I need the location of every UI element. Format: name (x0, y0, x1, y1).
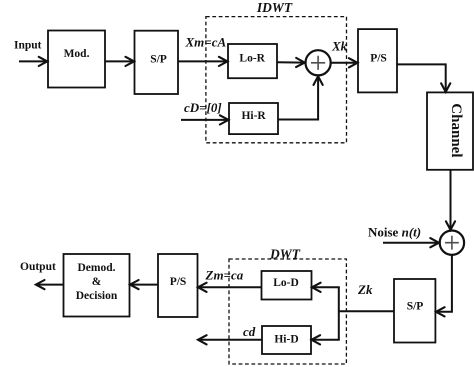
svg-text:&: & (92, 276, 102, 288)
svg-text:Xk: Xk (331, 39, 348, 54)
svg-text:Hi-D: Hi-D (274, 334, 298, 346)
svg-text:Demod.: Demod. (77, 262, 115, 274)
svg-text:cD=[0]: cD=[0] (184, 100, 222, 115)
svg-text:DWT: DWT (269, 247, 301, 262)
svg-text:P/S: P/S (170, 276, 187, 288)
svg-text:Lo-R: Lo-R (239, 53, 265, 65)
svg-text:Input: Input (14, 40, 42, 52)
svg-text:S/P: S/P (150, 54, 167, 66)
svg-text:IDWT: IDWT (256, 0, 293, 15)
svg-text:S/P: S/P (407, 301, 424, 313)
svg-text:Mod.: Mod. (64, 48, 90, 60)
svg-text:cd: cd (243, 324, 256, 339)
svg-text:Xm=cA: Xm=cA (185, 35, 227, 50)
svg-text:Noise n(t): Noise n(t) (368, 225, 421, 240)
svg-text:Output: Output (20, 261, 56, 273)
svg-text:Zm=ca: Zm=ca (205, 268, 244, 283)
svg-text:Channel: Channel (448, 103, 464, 157)
svg-text:P/S: P/S (370, 53, 387, 65)
svg-text:Decision: Decision (76, 290, 118, 302)
svg-text:Hi-R: Hi-R (241, 110, 266, 122)
svg-text:Zk: Zk (357, 282, 373, 297)
svg-text:Lo-D: Lo-D (273, 277, 299, 289)
